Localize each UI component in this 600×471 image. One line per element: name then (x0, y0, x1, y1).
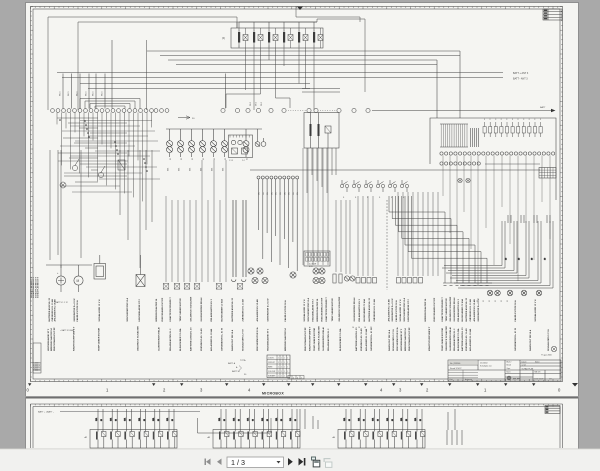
svg-text:RUECKFAHRLICHT RF: RUECKFAHRLICHT RF (304, 327, 307, 351)
svg-text:FAHRLICHT RE 56 A: FAHRLICHT RE 56 A (529, 329, 532, 351)
svg-text:1: 1 (278, 362, 279, 364)
svg-text:1: 1 (278, 366, 279, 368)
terminal row right 1 (440, 152, 555, 155)
revision table top right (543, 9, 562, 20)
motor M1 (74, 276, 83, 285)
svg-text:RELAISKASTEN KL 3: RELAISKASTEN KL 3 (210, 298, 213, 321)
page 2 relay (166, 409, 177, 448)
page 2 frame (31, 404, 563, 448)
svg-text:30: 30 (519, 258, 521, 260)
svg-text:7: 7 (301, 377, 302, 379)
relay K2 (253, 28, 263, 48)
svg-text:86: 86 (101, 419, 103, 421)
toolbar next page button (288, 458, 293, 466)
relay K4 (283, 28, 293, 48)
svg-text:Name: Name (535, 362, 540, 364)
fold mark triangle bottom right (572, 383, 578, 387)
lamp E5 (211, 129, 217, 157)
svg-text:FAHRLICHT RE 56 A: FAHRLICHT RE 56 A (514, 300, 517, 322)
svg-text:KRAFTSTOFFPUMPE T: KRAFTSTOFFPUMPE T (441, 297, 444, 322)
page 2 relay (289, 409, 300, 448)
svg-text:CIRCUIT: CIRCUIT (268, 362, 275, 364)
svg-text:TY/TA: TY/TA (240, 359, 246, 362)
svg-text:WISCHERMOTOR 53 A: WISCHERMOTOR 53 A (126, 298, 129, 322)
ruler ticks left (31, 7, 34, 378)
switch S3 (340, 180, 348, 192)
stamp mark (551, 346, 557, 352)
dashed wire (386, 200, 388, 290)
svg-text:OELDRUCK SCHALTER: OELDRUCK SCHALTER (318, 326, 321, 351)
svg-text:BLINKGEBER C2 49A: BLINKGEBER C2 49A (179, 328, 182, 351)
page 2 relay (357, 409, 368, 448)
ruler ticks top (31, 7, 558, 10)
svg-text:BLINKGEBER C2 49A: BLINKGEBER C2 49A (363, 299, 366, 322)
lamp E2 (178, 129, 184, 157)
svg-text:86: 86 (224, 419, 226, 421)
svg-text:ANLASSER KL 50 AB: ANLASSER KL 50 AB (210, 328, 213, 351)
svg-text:Blatt 2: Blatt 2 (507, 361, 512, 364)
small resistors (333, 274, 336, 283)
page 2 wire stubs right (447, 430, 462, 445)
mini row drops (259, 179, 298, 271)
svg-text:2 4: 2 4 (242, 160, 245, 162)
plug X12 (184, 284, 190, 290)
svg-text:BLINKGEBER C2 49A: BLINKGEBER C2 49A (457, 328, 460, 351)
page 2 relay (218, 409, 229, 448)
svg-text:1: 1 (287, 366, 288, 368)
svg-text:HEIZGEBLAESE ST 2: HEIZGEBLAESE ST 2 (312, 298, 315, 321)
switch S2 (98, 166, 105, 178)
svg-text:BATT + ANT 3: BATT + ANT 3 (513, 72, 529, 75)
svg-text:1: 1 (287, 371, 288, 373)
page 2 relay group (90, 430, 177, 449)
svg-text:1: 1 (281, 371, 282, 373)
svg-text:GLUEHKERZEN RELAI: GLUEHKERZEN RELAI (322, 327, 325, 351)
svg-text:GENERATOR D+ 61 W: GENERATOR D+ 61 W (73, 298, 76, 322)
svg-text:SIGNALHORN 12 V H: SIGNALHORN 12 V H (547, 329, 550, 351)
svg-text:86: 86 (406, 419, 408, 421)
svg-text:1: 1 (281, 366, 282, 368)
svg-text:FAHRLICHT RE 56 A: FAHRLICHT RE 56 A (284, 300, 287, 322)
svg-text:1: 1 (284, 362, 285, 364)
svg-text:RELAISKASTEN KL 3: RELAISKASTEN KL 3 (453, 328, 456, 351)
svg-text:31: 31 (489, 300, 491, 302)
svg-text:1: 1 (278, 357, 279, 359)
dotted continuation wire (288, 110, 306, 112)
svg-text:31: 31 (477, 300, 479, 302)
svg-text:RELAISKASTEN KL 3: RELAISKASTEN KL 3 (457, 298, 460, 321)
page 2 relay (343, 409, 354, 448)
svg-text:14: 14 (370, 327, 372, 329)
svg-text:86: 86 (281, 419, 283, 421)
toolbar prev page button (217, 459, 222, 466)
socket (248, 268, 254, 274)
svg-text:31: 31 (203, 158, 205, 160)
svg-text:58L: 58L (289, 192, 291, 195)
svg-text:31: 31 (507, 300, 509, 302)
scale numbers bottom (27, 388, 562, 393)
page 1 sheet (25, 2, 579, 396)
wire function labels band 1 (48, 296, 537, 321)
svg-text:31: 31 (170, 158, 172, 160)
svg-text:58L: 58L (267, 192, 269, 195)
page 2 relay (232, 409, 243, 448)
svg-text:58L: 58L (271, 192, 273, 195)
socket (262, 277, 268, 283)
svg-text:86: 86 (144, 419, 146, 421)
svg-text:4: 4 (289, 377, 290, 379)
switch S4 (352, 180, 360, 192)
plug X11 (174, 284, 180, 290)
socket (319, 277, 325, 283)
heavy wire pair (232, 200, 247, 282)
page 2 relay (152, 409, 163, 448)
svg-text:GLUEHKERZEN RELAI: GLUEHKERZEN RELAI (449, 327, 452, 351)
svg-text:14: 14 (352, 327, 354, 329)
socket (313, 277, 319, 283)
svg-text:31: 31 (214, 158, 216, 160)
page 2 relay group (213, 430, 300, 449)
svg-text:GLUEHKERZEN RELAI: GLUEHKERZEN RELAI (157, 327, 160, 351)
svg-text:SCHALTPLAN: SCHALTPLAN (522, 367, 534, 370)
svg-text:FAHRLICHT RE 56 A: FAHRLICHT RE 56 A (76, 300, 79, 322)
svg-text:TY-gas 2000: TY-gas 2000 (541, 355, 552, 357)
svg-text:31: 31 (181, 158, 183, 160)
connector row centre (356, 278, 360, 284)
svg-text:1 3 5: 1 3 5 (229, 160, 233, 162)
svg-text:MICROFILM: MICROFILM (39, 361, 41, 371)
svg-text:OELDRUCK SCHALTER: OELDRUCK SCHALTER (445, 326, 448, 351)
svg-text:TEMP GEBER MOTOR: TEMP GEBER MOTOR (180, 298, 182, 322)
svg-text:1: 1 (281, 375, 282, 377)
page 2 relay (414, 409, 425, 448)
svg-text:1: 1 (284, 357, 285, 359)
ruler ticks bottom (31, 379, 558, 382)
svg-text:ZUENDUNG KL 15 AN: ZUENDUNG KL 15 AN (241, 298, 244, 321)
svg-text:58L: 58L (293, 192, 295, 195)
toolbar prev view icon (311, 457, 320, 467)
svg-text:(F): (F) (222, 37, 225, 40)
svg-text:Gepr: Gepr (507, 367, 511, 370)
svg-text:+ BATT.12 V&E: + BATT.12 V&E (60, 329, 74, 332)
wire bundle comb (440, 124, 468, 147)
svg-text:2: 2 (269, 46, 270, 48)
svg-text:BATTERIE ANSCHL 30: BATTERIE ANSCHL 30 (465, 297, 468, 321)
switch S1 (72, 159, 79, 171)
svg-text:FAHRLICHT RE 56 A: FAHRLICHT RE 56 A (388, 329, 391, 351)
svg-text:CODE 1: CODE 1 (268, 357, 274, 359)
svg-text:1: 1 (287, 362, 288, 364)
svg-text:BREMSSCHALTER 54: BREMSSCHALTER 54 (50, 328, 53, 351)
svg-text:TEMP GEBER MOTOR: TEMP GEBER MOTOR (442, 327, 444, 351)
svg-text:M: M (77, 279, 80, 283)
svg-text:HEIZGEBLAESE ST 2: HEIZGEBLAESE ST 2 (47, 328, 50, 351)
page 2 ruler ticks (31, 404, 558, 407)
svg-text:SIGNALHORN 12 V H: SIGNALHORN 12 V H (534, 299, 537, 321)
svg-text:86: 86 (392, 419, 394, 421)
wire y164 (485, 163, 540, 165)
socket (313, 268, 319, 274)
wire labels left (60, 90, 104, 96)
svg-text:TEMP GEBER MOTOR: TEMP GEBER MOTOR (314, 327, 316, 351)
svg-text:BATTERIE ANSCHL 30: BATTERIE ANSCHL 30 (48, 297, 51, 321)
comb secondary (471, 128, 479, 147)
svg-text:RUECKFAHRLICHT RF: RUECKFAHRLICHT RF (433, 297, 436, 321)
svg-text:ANLASSER KL 50 AB: ANLASSER KL 50 AB (388, 299, 391, 322)
junction box outline (430, 118, 556, 200)
svg-text:GENERATOR D+ 61 W: GENERATOR D+ 61 W (370, 327, 373, 351)
svg-text:58L: 58L (263, 192, 265, 195)
svg-text:OELDRUCK SCHALTER: OELDRUCK SCHALTER (338, 296, 341, 321)
svg-text:5: 5 (293, 377, 294, 379)
svg-text:14: 14 (364, 327, 366, 329)
page 2 relay group (338, 430, 425, 449)
svg-text:KRAFTSTOFFPUMPE T: KRAFTSTOFFPUMPE T (309, 326, 312, 351)
svg-text:58L: 58L (276, 192, 278, 195)
svg-text:86: 86 (130, 419, 132, 421)
svg-text:NUMBER: NUMBER (268, 375, 276, 377)
svg-text:SIGNALHORN 12 V H: SIGNALHORN 12 V H (399, 299, 402, 321)
svg-text:86: 86 (238, 419, 240, 421)
svg-text:GENERATOR D+ 61 W: GENERATOR D+ 61 W (267, 298, 270, 322)
svg-text:58L: 58L (259, 192, 261, 195)
fold triangles bottom (28, 383, 535, 386)
lamp symbol left (60, 182, 66, 188)
svg-text:Stand 1234 P: Stand 1234 P (450, 367, 462, 370)
svg-text:RUECKFAHRLICHT RF: RUECKFAHRLICHT RF (321, 297, 324, 321)
enclosure box outline (48, 17, 317, 110)
svg-text:BATTERIE ANSCHL 30: BATTERIE ANSCHL 30 (355, 327, 358, 351)
page 2 bus wires (198, 409, 456, 433)
svg-text:86: 86 (158, 419, 160, 421)
page 2 relay (124, 409, 135, 448)
svg-text:1: 1 (239, 30, 240, 32)
toolbar (0, 449, 600, 471)
relay output drops (226, 48, 314, 110)
svg-text:+ BATT.V 1 1 12: + BATT.V 1 1 12 (54, 301, 68, 304)
battery G1 (56, 276, 65, 285)
lamp E7 (243, 129, 249, 157)
svg-text:MICROBOX: MICROBOX (262, 392, 284, 396)
svg-text:58L: 58L (284, 192, 286, 195)
wire drops to terminal strip (63, 40, 226, 109)
svg-text:806: 806 (168, 168, 170, 171)
svg-text:KRAFTSTOFFPUMPE T: KRAFTSTOFFPUMPE T (428, 326, 431, 351)
svg-text:OELDRUCK SCHALTER: OELDRUCK SCHALTER (137, 326, 140, 351)
svg-text:ANLASSER KL 50 AB: ANLASSER KL 50 AB (256, 299, 259, 322)
svg-text:Bearb: Bearb (507, 364, 512, 367)
relay K3 (268, 28, 278, 48)
relay coil left (118, 160, 125, 170)
wiring mesh left section (57, 112, 160, 201)
svg-text:ZUENDUNG KL 15 AN: ZUENDUNG KL 15 AN (465, 328, 468, 351)
svg-text:Schaltplan 1-6: Schaltplan 1-6 (480, 365, 492, 368)
svg-text:COD 1109: COD 1109 (534, 379, 544, 381)
svg-text:BATT - ANT 3: BATT - ANT 3 (513, 77, 528, 80)
vertical wires centre (166, 148, 418, 282)
svg-text:1 / 3: 1 / 3 (231, 458, 245, 467)
plug X15 (237, 284, 243, 290)
terminal strip X2 (154, 109, 169, 113)
svg-text:1: 1 (284, 30, 285, 32)
title block (448, 360, 561, 381)
lamp E6 (222, 129, 228, 157)
page 2 revision table (545, 406, 560, 414)
svg-text:BATTERIE ANSCHL 30: BATTERIE ANSCHL 30 (368, 297, 371, 321)
grid box right (539, 168, 556, 179)
page 2 relay (400, 409, 411, 448)
svg-text:ANLASSER KL 50 AB: ANLASSER KL 50 AB (473, 299, 476, 322)
relay block K1-K6 (231, 28, 323, 48)
svg-text:30: 30 (506, 258, 508, 260)
svg-text:86: 86 (420, 419, 422, 421)
svg-text:806: 806 (179, 168, 181, 171)
svg-text:2: 2 (254, 46, 255, 48)
page 2 sheet (25, 397, 579, 449)
svg-text:ZUENDUNG KL 15 AN: ZUENDUNG KL 15 AN (360, 328, 363, 351)
svg-text:RELAISKASTEN KL 3: RELAISKASTEN KL 3 (358, 298, 361, 321)
nested wire loop left (80, 99, 140, 109)
svg-text:ZUENDUNG KL 15 AN: ZUENDUNG KL 15 AN (373, 298, 376, 321)
switch S5 (364, 180, 372, 192)
svg-text:MB 370: MB 370 (535, 372, 541, 374)
svg-text:86: 86 (295, 419, 297, 421)
svg-text:BLINKGEBER C2 49A: BLINKGEBER C2 49A (461, 299, 464, 322)
svg-text:1: 1 (281, 362, 282, 364)
svg-text:OELDRUCK SCHALTER: OELDRUCK SCHALTER (449, 296, 452, 321)
bus to junction box verticals (437, 51, 460, 118)
socket circles right (487, 290, 493, 296)
bus wire y129 (166, 128, 262, 130)
control unit A2 (304, 251, 330, 266)
svg-text:14: 14 (358, 327, 360, 329)
svg-text:ZUENDUNG KL 15 AN: ZUENDUNG KL 15 AN (469, 298, 472, 321)
page 2 relay (138, 409, 149, 448)
mini row labels (259, 192, 300, 195)
bus wires (57, 51, 503, 89)
relay K6 (313, 28, 323, 48)
svg-text:1: 1 (287, 357, 288, 359)
legend text block left (30, 276, 40, 298)
socket pair right mid (458, 178, 470, 182)
svg-text:58L: 58L (297, 192, 299, 195)
fuse row F1-F12 (483, 122, 486, 137)
relay block feed wires (237, 6, 360, 28)
staircase wire cascade (389, 196, 487, 283)
toolbar page field (227, 457, 284, 468)
page 2 relay (95, 409, 106, 448)
svg-text:GLUEHKERZEN RELAI: GLUEHKERZEN RELAI (200, 297, 203, 321)
K7 drops (307, 148, 336, 193)
toolbar next view icon (324, 458, 332, 467)
svg-text:31: 31 (247, 158, 249, 160)
socket (252, 277, 258, 283)
svg-text:SCHALTPLAN MB 370 T: SCHALTPLAN MB 370 T (37, 276, 40, 298)
svg-text:Deckblatt: Deckblatt (480, 362, 488, 365)
svg-text:31: 31 (495, 300, 497, 302)
svg-text:BLINKGEBER C2 49A: BLINKGEBER C2 49A (221, 299, 224, 322)
socket (290, 272, 296, 278)
ruler ticks right (560, 7, 563, 378)
svg-text:GENERATOR D+ 61 W: GENERATOR D+ 61 W (514, 327, 517, 351)
left lower drops (50, 150, 152, 268)
svg-text:BATT: BATT (540, 106, 546, 109)
svg-text:GENERATOR D+ 61 W: GENERATOR D+ 61 W (391, 298, 394, 322)
svg-text:BREMSSCHALTER 54: BREMSSCHALTER 54 (424, 298, 427, 321)
svg-text:RELAISKASTEN KL 3: RELAISKASTEN KL 3 (169, 328, 172, 351)
terminal row right 2 (440, 162, 480, 165)
arrow wire to junction box (372, 110, 551, 112)
svg-text:1: 1 (269, 30, 270, 32)
page 2 relay (261, 409, 272, 448)
svg-text:OELDRUCK SCHALTER: OELDRUCK SCHALTER (190, 296, 193, 321)
svg-text:TEMP GEBER MOTOR: TEMP GEBER MOTOR (446, 298, 448, 322)
svg-text:No | 253906: No | 253906 (450, 363, 460, 365)
labels under lamp row (168, 168, 225, 171)
svg-text:1: 1 (284, 366, 285, 368)
svg-text:BATTERIE ANSCHL 30: BATTERIE ANSCHL 30 (231, 297, 234, 321)
svg-text:86: 86 (115, 419, 117, 421)
svg-text:KRAFTSTOFFPUMPE T: KRAFTSTOFFPUMPE T (73, 326, 76, 351)
fuse row labels (484, 119, 542, 121)
svg-text:2: 2 (284, 46, 285, 48)
svg-text:HEIZGEBLAESE ST 2: HEIZGEBLAESE ST 2 (407, 298, 410, 321)
svg-text:BREMSSCHALTER 54: BREMSSCHALTER 54 (155, 298, 158, 321)
socket pair right of resistors (344, 276, 349, 281)
svg-text:31: 31 (225, 158, 227, 160)
svg-text:30: 30 (545, 258, 547, 260)
svg-text:806: 806 (190, 168, 192, 171)
switch S8 (400, 180, 408, 192)
plug X10 (163, 284, 169, 290)
arrow symbol mid left (178, 116, 190, 119)
svg-text:BREMSSCHALTER 54: BREMSSCHALTER 54 (284, 328, 287, 351)
svg-text:SIGNALHORN 12 V H: SIGNALHORN 12 V H (98, 299, 101, 321)
wire to control unit (302, 19, 365, 92)
switch row labels (343, 197, 405, 199)
nested loop wires right (442, 221, 553, 288)
svg-text:BLINKGEBER C2 49A: BLINKGEBER C2 49A (339, 328, 342, 351)
svg-text:2: 2 (314, 46, 315, 48)
svg-text:BATTERIE ANSCHL 30: BATTERIE ANSCHL 30 (461, 327, 464, 351)
svg-text:BATT + | BATT -: BATT + | BATT - (38, 411, 54, 414)
wire stubs battery (61, 255, 141, 292)
svg-text:SIGNALHORN 12 V H: SIGNALHORN 12 V H (241, 329, 244, 351)
svg-text:WISCHERMOTOR 53 A: WISCHERMOTOR 53 A (396, 327, 399, 351)
svg-text:HEIZGEBLAESE ST 2: HEIZGEBLAESE ST 2 (400, 328, 403, 351)
svg-text:GLUEHKERZEN RELAI: GLUEHKERZEN RELAI (353, 297, 356, 321)
svg-text:Datum: Datum (522, 361, 528, 364)
svg-text:FAHRLICHT RE 56 A: FAHRLICHT RE 56 A (395, 300, 398, 322)
svg-text:ANLASSER KL 50 AB: ANLASSER KL 50 AB (365, 328, 368, 351)
svg-text:BATTERIE ANSCHL 30: BATTERIE ANSCHL 30 (190, 327, 193, 351)
svg-text:TEMP GEBER MOTOR: TEMP GEBER MOTOR (332, 298, 334, 322)
fold mark triangle top (297, 7, 303, 11)
svg-text:86: 86 (172, 419, 174, 421)
svg-text:WISCHERMOTOR 53 A: WISCHERMOTOR 53 A (403, 298, 406, 322)
switch S7 (388, 180, 396, 192)
toolbar last page button (299, 458, 306, 466)
lamp E4 (200, 129, 206, 157)
svg-text:1: 1 (281, 357, 282, 359)
svg-text:30: 30 (532, 258, 534, 260)
svg-text:86: 86 (363, 419, 365, 421)
svg-text:1: 1 (254, 30, 255, 32)
page 2 relay (386, 409, 397, 448)
svg-text:1: 1 (278, 371, 279, 373)
svg-text:ADLER: ADLER (513, 377, 521, 380)
relay K1 (238, 28, 248, 48)
